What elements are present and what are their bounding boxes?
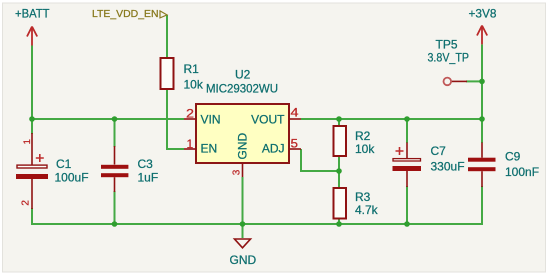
wire: top-left rail to VIN [32, 118, 184, 120]
junction node at +3V8 rail [479, 116, 485, 122]
svg-text:10k: 10k [184, 78, 204, 92]
svg-text:EN: EN [201, 142, 218, 156]
svg-text:C7: C7 [431, 144, 447, 158]
svg-text:100nF: 100nF [505, 165, 539, 179]
wire: C3 bottom to rail [114, 191, 116, 224]
pin 2 VIN [184, 106, 221, 126]
wire: C7 bottom to rail [406, 186, 408, 224]
svg-text:VOUT: VOUT [251, 113, 285, 127]
wire: R2 top [338, 119, 340, 126]
svg-text:GND: GND [236, 133, 250, 160]
wire: bottom rail [32, 223, 482, 225]
pin 5 ADJ [262, 137, 301, 156]
svg-text:U2: U2 [235, 68, 251, 82]
svg-text:C9: C9 [505, 150, 521, 164]
svg-text:3.8V_TP: 3.8V_TP [428, 51, 470, 65]
svg-text:5: 5 [291, 137, 299, 151]
wire: R1 bottom to EN [167, 89, 184, 149]
capacitor C9 [468, 143, 539, 188]
svg-text:100uF: 100uF [55, 171, 89, 185]
power symbol +BATT [15, 7, 50, 46]
capacitor C7 (polarized) [393, 143, 465, 188]
wire: label to R1 top [166, 15, 168, 58]
wire: R2 bottom to node [338, 156, 340, 171]
junction node at C1/C3 bottom rail [112, 221, 118, 227]
svg-text:C1: C1 [56, 157, 72, 171]
svg-text:1uF: 1uF [138, 171, 159, 185]
capacitor C1 (polarized) [16, 133, 89, 209]
svg-text:GND: GND [230, 253, 257, 267]
svg-text:4.7k: 4.7k [355, 203, 379, 217]
svg-text:LTE_VDD_EN: LTE_VDD_EN [92, 8, 159, 20]
svg-text:ADJ: ADJ [262, 142, 285, 156]
pin 4 VOUT [251, 105, 301, 126]
wire: C7 top [406, 119, 408, 143]
wire: C1 bottom to rail [31, 208, 33, 225]
junction node at R2/R3 divider [336, 168, 342, 174]
wire: node to R3 top [338, 171, 340, 188]
wire: U2 GND pin to rail and GND symbol [242, 177, 244, 238]
wire: C1 top [31, 119, 33, 134]
wire: +3V8 vertical down through TP node to C9 [481, 44, 483, 143]
svg-text:3: 3 [232, 169, 243, 175]
svg-text:R3: R3 [355, 190, 371, 204]
pin 1 EN [184, 137, 217, 156]
wire: TP5 to +3V8 line [466, 80, 482, 82]
global label LTE_VDD_EN [92, 8, 167, 20]
svg-text:MIC29302WU: MIC29302WU [206, 82, 278, 96]
wire: +BATT vertical to top rail [31, 46, 33, 120]
svg-text:1: 1 [22, 139, 33, 144]
ground symbol [230, 239, 257, 267]
junction node on top-left rail at +BATT/C1 [29, 116, 35, 122]
junction node at R2 top [336, 116, 342, 122]
svg-text:2: 2 [186, 106, 194, 120]
pin 3 GND (bottom) [232, 133, 250, 178]
wire: C3 top [114, 119, 116, 147]
junction node at C7 bottom rail [404, 221, 410, 227]
junction node at C7 top [404, 116, 410, 122]
svg-text:2: 2 [21, 200, 32, 206]
wire: VOUT to right rail [301, 118, 482, 120]
svg-text:TP5: TP5 [436, 38, 458, 52]
svg-text:330uF: 330uF [431, 160, 465, 174]
capacitor C3 [101, 146, 158, 192]
svg-text:VIN: VIN [201, 113, 221, 127]
svg-text:C3: C3 [138, 157, 154, 171]
wire: R3 bottom to rail [338, 219, 340, 225]
wire: ADJ to R2/R3 node [301, 149, 339, 171]
resistor R2 [334, 126, 376, 156]
svg-text:10k: 10k [355, 142, 375, 156]
op-amp U2 regulator MIC29302WU [196, 68, 289, 164]
junction node at R3 bottom rail [336, 221, 342, 227]
svg-text:+BATT: +BATT [15, 7, 50, 21]
junction node at TP5 [479, 79, 485, 85]
power symbol +3V8 [469, 7, 497, 45]
resistor R3 [334, 188, 379, 219]
svg-text:R1: R1 [184, 62, 200, 76]
resistor R1 [161, 58, 204, 92]
test point TP5 [428, 38, 470, 86]
svg-text:+3V8: +3V8 [469, 7, 497, 21]
junction node at C3 top [112, 116, 118, 122]
svg-text:4: 4 [291, 105, 299, 119]
svg-text:R2: R2 [355, 129, 371, 143]
wire: C9 bottom to rail corner [481, 186, 483, 225]
svg-text:1: 1 [187, 137, 194, 151]
junction node at GND rail [240, 221, 246, 227]
